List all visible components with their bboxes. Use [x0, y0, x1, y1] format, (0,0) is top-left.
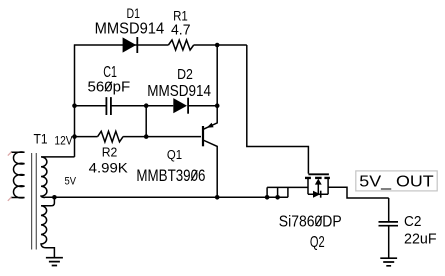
- svg-text:22uF: 22uF: [404, 230, 437, 247]
- svg-text:D2: D2: [177, 66, 193, 83]
- svg-text:MMBT3906: MMBT3906: [136, 166, 205, 185]
- svg-text:Q2: Q2: [310, 234, 325, 251]
- svg-text:5V_ OUT: 5V_ OUT: [359, 174, 434, 191]
- svg-text:MMSD914: MMSD914: [147, 83, 211, 100]
- svg-text:560pF: 560pF: [88, 79, 131, 96]
- svg-text:T1: T1: [34, 131, 48, 147]
- svg-text:D1: D1: [127, 5, 141, 21]
- svg-text:C2: C2: [404, 213, 421, 230]
- svg-text:R2: R2: [102, 145, 118, 160]
- svg-text:4.7: 4.7: [171, 22, 191, 39]
- svg-text:12V: 12V: [54, 133, 72, 147]
- svg-text:Si7860DP: Si7860DP: [279, 214, 342, 231]
- svg-text:MMSD914: MMSD914: [95, 21, 165, 38]
- svg-text:Q1: Q1: [167, 147, 182, 162]
- svg-text:5V: 5V: [65, 176, 77, 188]
- svg-text:4.99K: 4.99K: [89, 159, 129, 175]
